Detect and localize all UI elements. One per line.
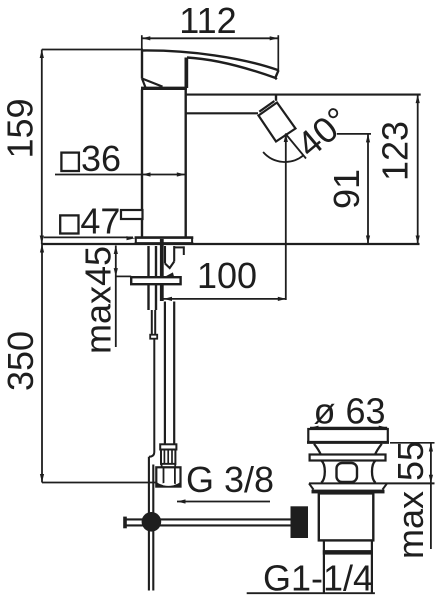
pull rod upper (solid) (160, 239, 164, 301)
pull rod lower (149, 339, 154, 591)
drain collar ring (310, 455, 386, 461)
40 degree angle annotation (263, 99, 357, 300)
handle lever (142, 79, 163, 88)
hose chamfer band (162, 464, 176, 467)
faucet body (141, 58, 187, 239)
dimension 91 (326, 134, 371, 244)
supply hose upper piece with break (165, 246, 174, 268)
label square-36 (55, 138, 185, 179)
dimension 159 (0, 50, 143, 245)
supply hose break lower edge (165, 272, 174, 276)
drain cap (307, 429, 389, 442)
svg-text:max45: max45 (78, 246, 119, 354)
svg-text:123: 123 (375, 121, 416, 181)
dimension max45 (78, 246, 132, 355)
G 3/8 label (177, 459, 274, 504)
svg-text:350: 350 (0, 331, 41, 391)
hose end collar (160, 444, 176, 449)
svg-text:ø 63: ø 63 (313, 391, 385, 432)
drain lower flange (309, 483, 435, 493)
hose nut G3/8 (156, 467, 180, 486)
mounting stud (149, 246, 158, 339)
dimension diameter 63 (310, 391, 387, 432)
deck line (42, 243, 420, 245)
svg-text:100: 100 (197, 255, 257, 296)
hose ferrule (161, 450, 175, 464)
drain spool body (321, 461, 375, 483)
base plate (135, 238, 194, 244)
ball joint (142, 512, 162, 532)
svg-text:91: 91 (326, 169, 367, 209)
dimension 100 (164, 255, 287, 301)
drain body (319, 493, 374, 540)
svg-text:max 55: max 55 (390, 441, 431, 559)
drain neck (314, 444, 382, 455)
supply hose lower run (165, 302, 174, 445)
label square-47 (44, 201, 143, 242)
rod connector box (291, 506, 309, 538)
spout lower shelf (186, 112, 258, 114)
G1-1/4 label (247, 558, 375, 599)
svg-text:47: 47 (80, 201, 120, 242)
dimension 350 (0, 244, 156, 483)
dimension max 55 (390, 441, 435, 559)
dimension 112 (142, 0, 278, 71)
drain square hole (337, 463, 358, 482)
rod end cap (123, 517, 127, 529)
svg-text:159: 159 (0, 98, 41, 158)
svg-text:112: 112 (179, 0, 236, 41)
spout underside shelf / 123 extension line (186, 94, 421, 96)
second hose stub (175, 246, 185, 255)
dimension 123 (375, 95, 420, 244)
horizontal drain rod (125, 519, 296, 525)
spout (142, 50, 279, 88)
svg-text:G 3/8: G 3/8 (186, 459, 274, 500)
drain tailpiece (323, 540, 373, 592)
svg-text:36: 36 (81, 138, 121, 179)
aerator (259, 96, 296, 142)
clamp plate (131, 277, 180, 284)
